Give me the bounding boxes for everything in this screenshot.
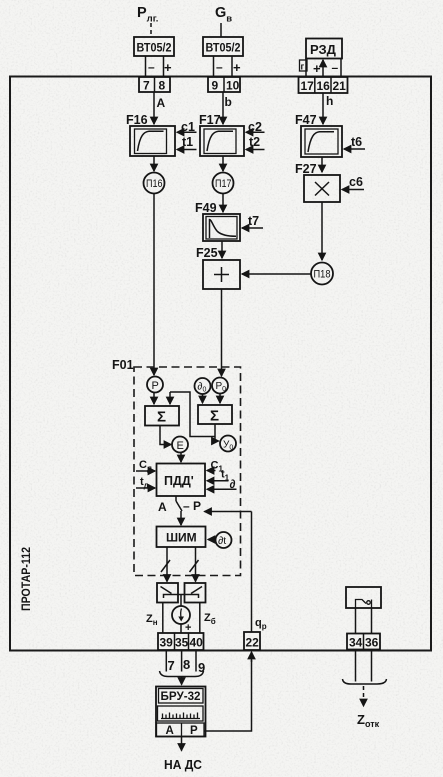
svg-text:–: – — [332, 61, 339, 75]
svg-text:+: + — [233, 60, 241, 75]
svg-text:Σ: Σ — [210, 408, 219, 425]
svg-text:ПРОТАР-112: ПРОТАР-112 — [21, 547, 33, 611]
svg-text:36: 36 — [365, 636, 379, 650]
svg-text:ВТ05/2: ВТ05/2 — [137, 43, 172, 55]
svg-text:Р: Р — [152, 380, 159, 392]
svg-text:9: 9 — [198, 660, 205, 675]
svg-text:ПДД': ПДД' — [164, 474, 194, 488]
svg-text:F01: F01 — [112, 358, 134, 372]
svg-text:А: А — [157, 96, 166, 110]
svg-text:Р: Р — [190, 725, 198, 737]
svg-text:h: h — [326, 94, 333, 108]
svg-text:F47: F47 — [295, 113, 317, 127]
svg-text:∂t: ∂t — [218, 535, 226, 547]
svg-text:35: 35 — [175, 636, 189, 650]
svg-text:F27: F27 — [295, 162, 317, 176]
svg-text:t7: t7 — [248, 214, 259, 228]
svg-text:t1: t1 — [182, 135, 193, 149]
svg-text:t2: t2 — [249, 135, 260, 149]
svg-text:П17: П17 — [215, 178, 232, 190]
svg-text:–: – — [148, 60, 155, 74]
svg-text:– Р: – Р — [183, 499, 201, 513]
svg-text:+: + — [313, 61, 321, 76]
svg-text:Σ: Σ — [157, 409, 166, 426]
svg-text:b: b — [225, 95, 232, 109]
svg-text:+: + — [164, 60, 172, 75]
svg-text:А: А — [158, 500, 167, 514]
svg-text:НА ДС: НА ДС — [164, 757, 203, 772]
svg-text:ШИМ: ШИМ — [166, 531, 197, 545]
svg-text:16: 16 — [317, 79, 331, 93]
svg-text:ВТ05/2: ВТ05/2 — [206, 43, 241, 55]
svg-text:А: А — [166, 725, 174, 737]
svg-text:F17: F17 — [199, 113, 221, 127]
svg-text:БРУ-32: БРУ-32 — [161, 691, 201, 703]
svg-text:F25: F25 — [196, 246, 218, 260]
svg-text:П16: П16 — [146, 178, 163, 190]
svg-text:F49: F49 — [195, 201, 217, 215]
svg-text:17: 17 — [301, 79, 315, 93]
svg-text:9: 9 — [212, 79, 219, 93]
svg-text:7: 7 — [143, 79, 150, 93]
svg-text:8: 8 — [183, 657, 190, 672]
svg-text:–: – — [216, 60, 223, 74]
svg-text:21: 21 — [333, 79, 347, 93]
svg-text:7: 7 — [168, 658, 175, 673]
svg-text:РЗД: РЗД — [310, 42, 337, 57]
svg-text:8: 8 — [159, 79, 166, 93]
svg-text:10: 10 — [226, 79, 240, 93]
svg-text:П18: П18 — [314, 269, 331, 281]
svg-text:Е: Е — [177, 440, 184, 452]
svg-text:c6: c6 — [349, 175, 363, 189]
svg-text:г: г — [301, 62, 305, 72]
svg-text:t6: t6 — [351, 135, 362, 149]
svg-text:22: 22 — [246, 636, 260, 650]
svg-text:F16: F16 — [126, 113, 148, 127]
svg-text:34: 34 — [349, 636, 363, 650]
svg-text:39: 39 — [160, 636, 174, 650]
svg-text:40: 40 — [190, 636, 204, 650]
